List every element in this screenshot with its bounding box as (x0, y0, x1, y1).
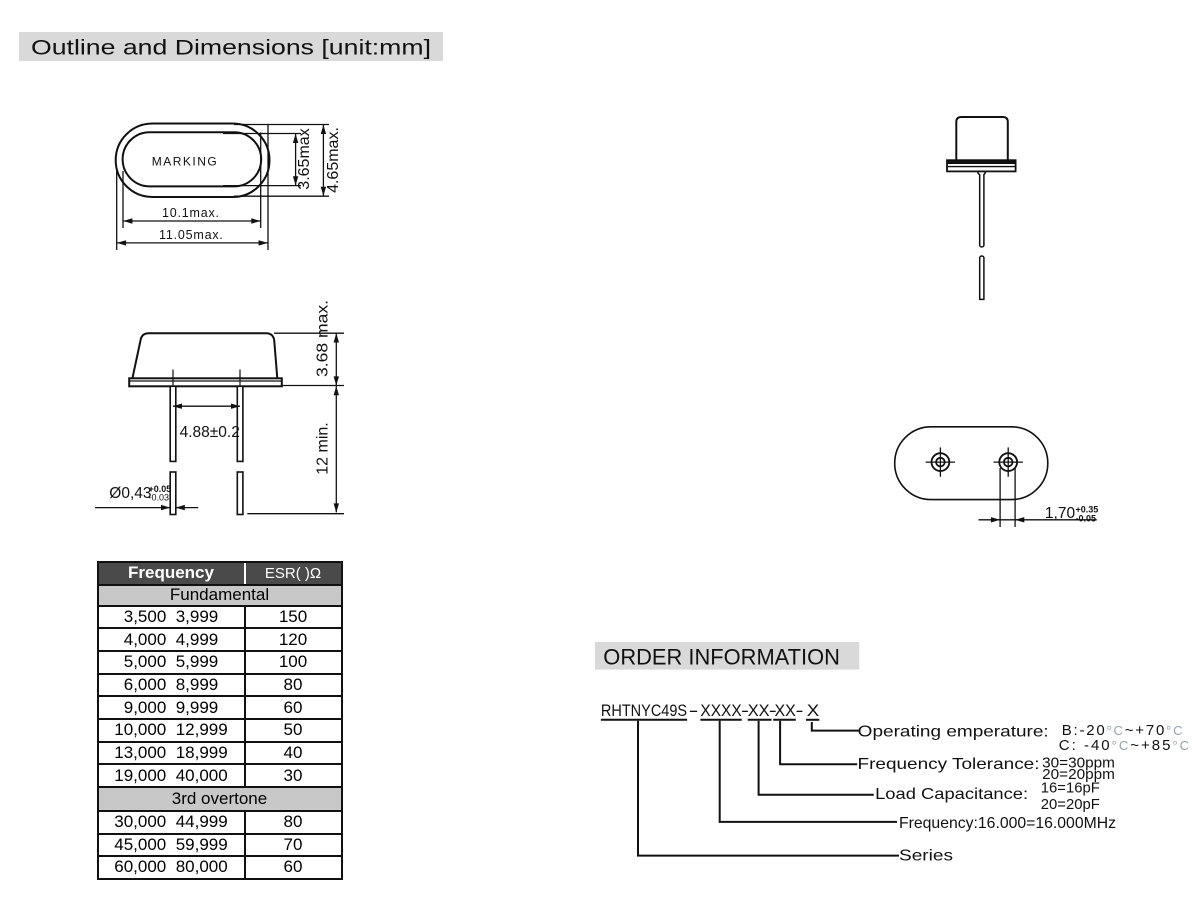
TOP VIEW: inner case stadium (123, 132, 262, 186)
svg-text:3.65max: 3.65max (296, 128, 313, 189)
dim 12min vertical line (335, 386, 337, 512)
svg-text:10.1max.: 10.1max. (162, 206, 220, 220)
dim 4.65max line + arrows (322, 125, 324, 196)
svg-text:3.68 max.: 3.68 max. (315, 300, 332, 377)
BOTTOM VIEW: left pad crosshair (926, 447, 955, 476)
svg-text:Outline and Dimensions [unit:m: Outline and Dimensions [unit:mm] (31, 37, 431, 60)
dim 3.68max vertical line (335, 334, 337, 386)
leader: series (638, 721, 899, 856)
leader: load capacitance (759, 721, 874, 795)
BOTTOM VIEW: stadium (895, 427, 1048, 500)
svg-text:XXXX: XXXX (700, 701, 741, 720)
leader: frequency (720, 721, 897, 822)
SIDE VIEW: right leg lower (237, 472, 243, 515)
SIDE VIEW: leg centerlines (172, 370, 174, 421)
dim 4.88 line + arrows (173, 405, 240, 407)
SIDE VIEW: body (132, 333, 277, 378)
svg-text:1,70: 1,70 (1045, 505, 1076, 522)
title bar: Outline and Dimensions (19, 32, 443, 61)
svg-text:C: -40°C~+85°C: C: -40°C~+85°C (1059, 737, 1191, 754)
svg-text:4.88±0.2: 4.88±0.2 (180, 424, 240, 441)
svg-text:-0.05: -0.05 (1076, 514, 1097, 524)
svg-text:X: X (807, 701, 820, 720)
dim 11.05max line + arrows (117, 242, 268, 244)
svg-text:12 min.: 12 min. (315, 422, 332, 474)
leader: frequency tolerance (780, 721, 857, 765)
svg-text:RHTNYC49S: RHTNYC49S (601, 701, 687, 720)
dim 10.1max line + arrows (123, 220, 260, 222)
svg-text:-: - (689, 701, 699, 720)
END VIEW (top right): body (956, 117, 1008, 160)
END VIEW: flange (947, 160, 1016, 171)
svg-text:20=20pF: 20=20pF (1041, 796, 1100, 813)
END VIEW: lead upper (978, 172, 985, 247)
svg-text:-: - (796, 701, 804, 720)
dim 4.65max extension lines (234, 124, 329, 126)
END VIEW: lead lower (980, 256, 984, 299)
svg-text:Operating emperature:: Operating emperature: (858, 724, 1049, 741)
svg-text:4.65max.: 4.65max. (325, 127, 342, 193)
part number underlines (601, 719, 819, 721)
right dim extension lines (274, 332, 344, 334)
SIDE VIEW: base flange (129, 378, 282, 386)
bottom dim extension verticals (122, 171, 124, 228)
SIDE VIEW: right leg upper (237, 386, 243, 461)
svg-text:Ø0,43: Ø0,43 (109, 485, 151, 502)
SIDE VIEW: left leg lower (170, 472, 176, 515)
dim 1.70 line + arrows (979, 519, 1097, 521)
svg-text:ORDER INFORMATION: ORDER INFORMATION (603, 645, 840, 670)
dim 3.65max extension lines (223, 133, 301, 135)
svg-text:Load Capacitance:: Load Capacitance: (875, 786, 1028, 803)
dim Ø0.43 line + arrows (95, 507, 170, 509)
svg-text:-0.03: -0.03 (149, 493, 170, 503)
dim 3.65max line + arrows (295, 134, 297, 185)
SIDE VIEW: left leg upper (170, 386, 176, 461)
ORDER INFORMATION title bar (595, 642, 859, 670)
leader: operating temperature (812, 722, 859, 731)
svg-text:MARKING: MARKING (152, 155, 219, 169)
dim 1.70 extension lines (999, 468, 1001, 527)
svg-text:XX: XX (748, 701, 770, 720)
svg-text:Series: Series (899, 848, 953, 865)
svg-text:XX: XX (775, 701, 796, 720)
svg-text:11.05max.: 11.05max. (159, 228, 224, 242)
frequency/ESR table (97, 561, 343, 880)
BOTTOM VIEW: right pad crosshair (994, 447, 1023, 476)
svg-text:Frequency:16.000=16.000MHz: Frequency:16.000=16.000MHz (899, 815, 1116, 832)
svg-text:16=16pF: 16=16pF (1041, 780, 1100, 797)
TOP VIEW: outer case stadium (116, 124, 270, 198)
svg-text:Frequency Tolerance:: Frequency Tolerance: (858, 756, 1040, 773)
